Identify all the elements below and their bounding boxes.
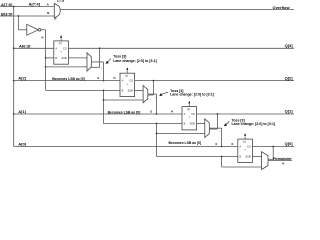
svg-text:Becomes LSB as [0]: Becomes LSB as [0] xyxy=(169,141,202,145)
svg-text:A >= B: A >= B xyxy=(57,0,65,3)
svg-text:Q[3]: Q[3] xyxy=(285,43,294,48)
svg-text:Toss [3]: Toss [3] xyxy=(113,55,126,59)
svg-text:(s): (s) xyxy=(125,75,128,78)
svg-text:A[2]: A[2] xyxy=(18,76,26,81)
svg-text:Becomes LSB as [0]: Becomes LSB as [0] xyxy=(108,110,141,114)
svg-text:A[7:4]: A[7:4] xyxy=(29,2,41,7)
svg-text:(s): (s) xyxy=(59,42,62,45)
svg-text:Lane change: [2:0] to [3:1]: Lane change: [2:0] to [3:1] xyxy=(113,59,157,63)
svg-text:SUB: SUB xyxy=(190,123,195,126)
svg-text:(s): (s) xyxy=(187,108,190,111)
svg-text:Remainder: Remainder xyxy=(273,157,292,161)
svg-text:Becomes LSB as [0]: Becomes LSB as [0] xyxy=(52,77,85,81)
svg-text:Lane change: [2:0] to [3:1]: Lane change: [2:0] to [3:1] xyxy=(232,122,276,126)
svg-text:SUB: SUB xyxy=(61,57,66,60)
svg-text:A[1]: A[1] xyxy=(18,109,26,114)
svg-text:Q[0]: Q[0] xyxy=(285,141,294,146)
svg-text:SUB: SUB xyxy=(128,90,133,93)
svg-text:Q[2]: Q[2] xyxy=(285,75,294,80)
svg-text:Q[1]: Q[1] xyxy=(285,109,294,114)
svg-text:A[0]: A[0] xyxy=(18,142,26,147)
svg-text:(s): (s) xyxy=(243,140,246,143)
svg-text:CO: CO xyxy=(129,80,133,83)
svg-text:SUB: SUB xyxy=(245,156,250,159)
svg-text:CO: CO xyxy=(191,113,195,116)
svg-text:Overflow: Overflow xyxy=(272,5,290,10)
svg-text:A[6:3]: A[6:3] xyxy=(19,44,31,49)
svg-text:Lane change: [2:0] to [3:1]: Lane change: [2:0] to [3:1] xyxy=(170,93,214,97)
svg-text:CO: CO xyxy=(247,146,251,149)
svg-text:CO: CO xyxy=(63,47,67,50)
